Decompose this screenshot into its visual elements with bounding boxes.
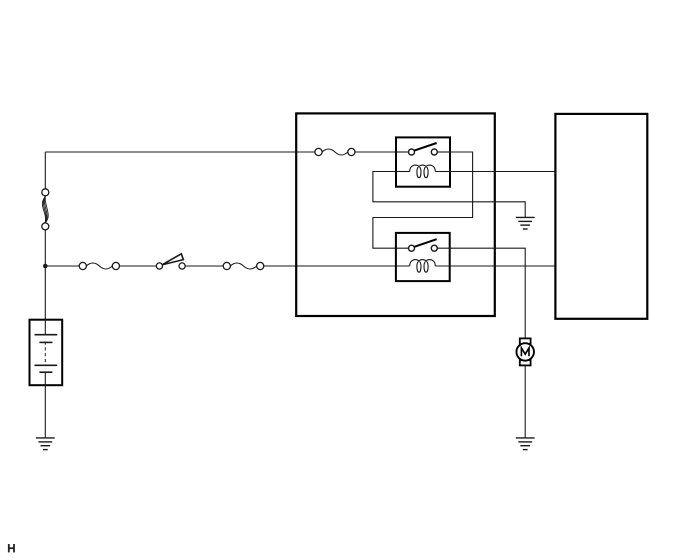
ground (relay K1 coil) [516, 217, 535, 229]
wire: top horizontal feed from battery node to relay block [45, 151, 408, 153]
fuse F2 [223, 262, 264, 269]
wire: K2 contact output to motor [437, 248, 525, 338]
motor M1 [516, 338, 534, 365]
ground (battery) [36, 438, 55, 450]
battery B1 [30, 320, 63, 386]
wire: K1 contact output, down and across to K2 contact [373, 152, 473, 248]
wire: left vertical run (battery positive rail) [44, 152, 46, 320]
ECU box [555, 114, 647, 319]
node A: junction of battery rail and switch feed [43, 264, 48, 269]
ground (motor) [516, 438, 535, 450]
wire: battery negative to ground [44, 385, 46, 437]
label H (page index) [9, 544, 14, 552]
wire: motor to ground [524, 365, 526, 437]
wire: K1 coil left end to ground run [373, 172, 525, 218]
fusible link FL [42, 189, 49, 230]
fuse F3 (inside relay block) [315, 148, 355, 155]
relay K1 (upper) [396, 137, 450, 186]
wire: K2 coil right end to ECU [435, 265, 555, 267]
wire: main horizontal run at ignition row [45, 265, 409, 267]
wire: K1 coil right end to ECU [450, 171, 555, 173]
fuse F1 [79, 262, 119, 269]
relay K2 (lower) [396, 233, 450, 281]
relay block box [296, 113, 495, 316]
switch SW1 (ignition switch) [156, 254, 185, 269]
